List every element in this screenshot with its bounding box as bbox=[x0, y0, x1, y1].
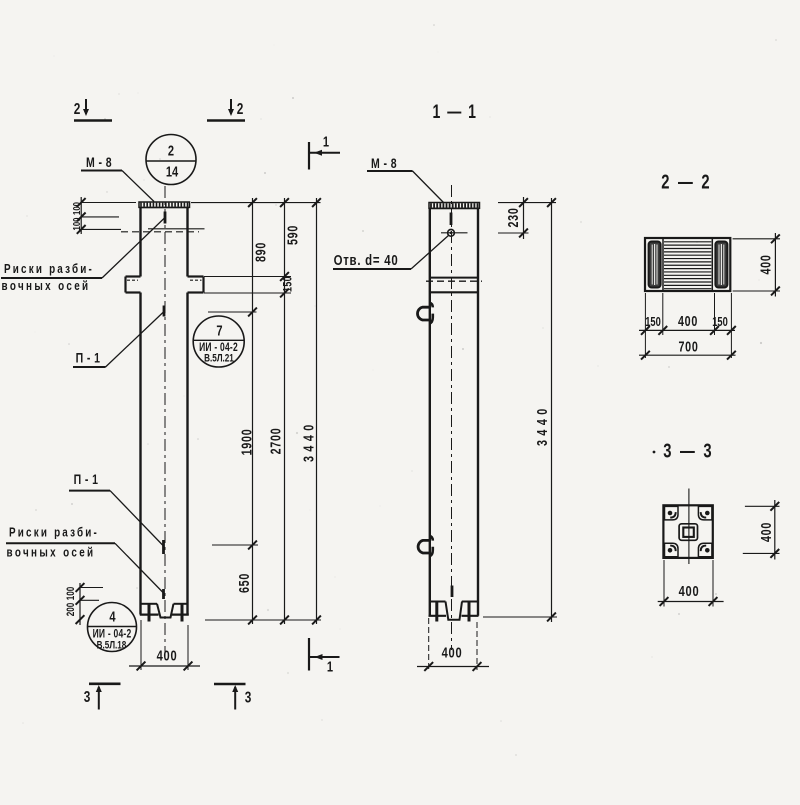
svg-text:400: 400 bbox=[679, 582, 700, 599]
svg-text:В.5Л.21: В.5Л.21 bbox=[204, 352, 234, 365]
label P-1 upper with leader bbox=[73, 312, 164, 368]
svg-text:700: 700 bbox=[678, 338, 698, 355]
section 3-3 corner rebar detail bottom-left bbox=[665, 543, 679, 557]
vertical dimension line 890/1900/650 bbox=[236, 198, 270, 624]
setting-out axis mark tick (top, left view) bbox=[164, 212, 167, 224]
svg-text:В.5Л.18: В.5Л.18 bbox=[97, 639, 127, 652]
dimension 400 (below left view) bbox=[129, 620, 200, 670]
svg-text:4: 4 bbox=[109, 608, 116, 625]
section 3-3 center hole detail bbox=[679, 524, 697, 541]
svg-text:400: 400 bbox=[442, 644, 463, 661]
section 2-2 right insert (hatched) bbox=[715, 242, 727, 288]
note 'Riski razbivochnykh osey' lower with leader bbox=[6, 527, 164, 593]
lifting loop lower bbox=[418, 536, 433, 557]
svg-text:200: 200 bbox=[65, 603, 78, 617]
axis line dashed (left view top) bbox=[121, 231, 199, 233]
position balloon 7 II-04-2 V.5L.21 bbox=[193, 316, 244, 367]
svg-text:2: 2 bbox=[74, 99, 81, 117]
vertical dimension line 3440 (middle view) bbox=[483, 198, 557, 622]
section 3-3 corner rebar detail top-left bbox=[665, 506, 679, 520]
dimension 400 (right of section 2-2) bbox=[733, 233, 780, 297]
section 3-3 centerline bbox=[688, 489, 690, 565]
svg-text:230: 230 bbox=[505, 207, 522, 227]
view title 1-1 bbox=[433, 101, 478, 123]
svg-text:14: 14 bbox=[166, 163, 179, 180]
section cut marker 3 (bottom left) bbox=[84, 684, 121, 710]
section cut marker 2 (top right) bbox=[207, 99, 245, 121]
section 2-2 middle horizontal hatch bbox=[664, 242, 711, 289]
svg-text:1: 1 bbox=[323, 133, 329, 150]
vertical dimension line 590/150/2700 bbox=[267, 198, 301, 624]
svg-text:650: 650 bbox=[236, 573, 253, 593]
svg-text:М - 8: М - 8 bbox=[371, 156, 397, 172]
position balloon 4 II-04-2 V.5L.18 bbox=[88, 603, 137, 652]
setting-out axis tick (top, middle view) bbox=[450, 213, 453, 226]
svg-text:П - 1: П - 1 bbox=[76, 350, 101, 366]
dimension 100/200 (bottom left) bbox=[65, 583, 103, 625]
column bottom crown detail (middle view) bbox=[429, 602, 479, 622]
svg-text:Отв. d= 40: Отв. d= 40 bbox=[334, 251, 399, 268]
section cut marker 2 (top left) bbox=[74, 99, 112, 121]
column top mesh strip M-8 (middle view) bbox=[429, 203, 480, 209]
dimension 400 (right of section 3-3) bbox=[743, 500, 780, 560]
svg-text:150: 150 bbox=[645, 316, 661, 330]
vertical dimension line 3440 (left view) bbox=[300, 198, 321, 624]
column top mesh strip M-8 (left view) bbox=[139, 202, 190, 207]
dimensions 150/400/150 and 700 (below section 2-2) bbox=[639, 293, 736, 360]
setting-out axis mark tick (middle, left view) bbox=[163, 306, 166, 317]
label Otv. d=40 with leader bbox=[333, 235, 449, 269]
svg-text:400: 400 bbox=[157, 647, 178, 664]
label M-8 with leader (middle view) bbox=[367, 156, 444, 203]
svg-text:М - 8: М - 8 bbox=[86, 155, 112, 171]
view title 2-2 bbox=[661, 171, 712, 194]
label P-1 lower with leader bbox=[69, 472, 164, 546]
svg-text:2700: 2700 bbox=[267, 428, 284, 455]
setting-out axis tick (lower 1, left view) bbox=[162, 540, 165, 554]
setting-out axis tick (bottom, middle view) bbox=[451, 586, 454, 598]
note 'Riski razbivochnykh osey' upper with leader bbox=[1, 218, 165, 294]
svg-text:150: 150 bbox=[712, 316, 728, 330]
label M-8 with leader (left view) bbox=[81, 155, 154, 202]
dimension 230 bbox=[498, 197, 529, 239]
column bottom crown detail (left view) bbox=[140, 604, 189, 622]
svg-text:вочных осей: вочных осей bbox=[7, 547, 96, 561]
section 3-3 corner rebar detail bottom-right bbox=[698, 543, 712, 557]
svg-text:100: 100 bbox=[71, 218, 82, 231]
svg-text:3: 3 bbox=[84, 687, 91, 705]
svg-text:1: 1 bbox=[327, 658, 333, 675]
section cut marker 3 (bottom right) bbox=[214, 684, 251, 710]
svg-text:П - 1: П - 1 bbox=[74, 472, 99, 488]
section cut marker 1 (top) bbox=[309, 133, 340, 170]
svg-text:890: 890 bbox=[252, 242, 269, 262]
dimension 400 (below section 3-3) bbox=[658, 560, 724, 607]
svg-text:Риски разби-: Риски разби- bbox=[4, 263, 94, 277]
svg-text:100: 100 bbox=[71, 202, 82, 215]
lifting loop upper bbox=[418, 303, 433, 324]
svg-text:2: 2 bbox=[168, 142, 174, 159]
svg-text:1 — 1: 1 — 1 bbox=[433, 101, 478, 123]
dimension 400 (below middle view) bbox=[417, 618, 489, 671]
svg-text:400: 400 bbox=[678, 313, 698, 330]
svg-text:400: 400 bbox=[757, 254, 774, 274]
svg-text:590: 590 bbox=[284, 225, 301, 245]
svg-text:вочных осей: вочных осей bbox=[2, 280, 91, 294]
column centerline (middle view) bbox=[451, 185, 453, 650]
svg-text:150: 150 bbox=[281, 276, 295, 292]
console lug hatch dashes (left view) bbox=[127, 279, 202, 281]
svg-text:3 4 4 0: 3 4 4 0 bbox=[300, 424, 317, 462]
section cut marker 1 (bottom) bbox=[309, 638, 340, 675]
svg-text:1900: 1900 bbox=[238, 429, 255, 456]
view title 3-3 bbox=[653, 440, 714, 463]
svg-text:3: 3 bbox=[245, 687, 252, 705]
svg-text:3 4 4 0: 3 4 4 0 bbox=[534, 408, 551, 446]
position balloon 2/14 bbox=[146, 135, 196, 185]
dimension 100/100 (top left) bbox=[71, 197, 136, 234]
dimension extension lines (left view) bbox=[191, 203, 321, 620]
svg-text:7: 7 bbox=[216, 322, 222, 339]
section 3-3 corner rebar detail top-right bbox=[698, 506, 712, 520]
svg-text:400: 400 bbox=[757, 522, 774, 542]
svg-text:3 — 3: 3 — 3 bbox=[663, 440, 714, 463]
section 2-2 outer rectangle bbox=[645, 238, 730, 291]
axis line solid (left view top) bbox=[148, 228, 205, 230]
svg-text:2: 2 bbox=[237, 99, 244, 117]
column body outline (left view) bbox=[126, 207, 204, 614]
section 3-3 outer square bbox=[663, 505, 712, 558]
section 2-2 inner vertical edges bbox=[663, 239, 712, 291]
svg-text:2 — 2: 2 — 2 bbox=[661, 171, 712, 194]
console section lines (middle view) bbox=[426, 278, 482, 293]
setting-out axis tick (lower 2, left view) bbox=[162, 589, 165, 599]
hole otv d=40 bbox=[441, 229, 468, 236]
column centerline (left view) bbox=[164, 186, 166, 657]
svg-text:100: 100 bbox=[65, 587, 78, 601]
svg-text:Риски разби-: Риски разби- bbox=[9, 527, 99, 541]
section 2-2 left insert (hatched) bbox=[649, 242, 661, 288]
column body outline (middle view) bbox=[429, 208, 479, 616]
